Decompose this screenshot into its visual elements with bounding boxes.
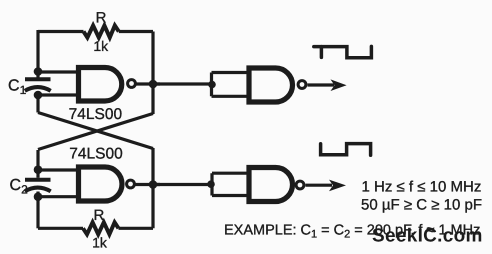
wire left vertical upper (top rail to C1) — [36, 30, 39, 78]
wire U1 output to node — [135, 82, 160, 85]
wire U4 output arrow shaft — [306, 184, 333, 187]
waveform symbol top (square wave) — [314, 46, 372, 57]
svg-text:1k: 1k — [92, 234, 108, 250]
wire U3 input bracket — [212, 73, 251, 97]
node dot below C1 — [34, 91, 43, 100]
svg-text:1k: 1k — [93, 38, 109, 54]
waveform top start tick — [320, 47, 324, 58]
wire cross coupling diagonal B (node A rail to C2 top) — [38, 114, 153, 150]
op-amp U4 NAND gate body — [249, 168, 293, 202]
node dot above C1 — [34, 67, 43, 76]
capacitor C1 curved plate — [25, 87, 51, 91]
wire top rail left segment — [38, 30, 84, 33]
U4 output inversion bubble — [296, 181, 304, 189]
wire bottom rail left segment — [38, 227, 83, 230]
wire left vertical (diagonal B to C2) — [36, 150, 39, 178]
svg-text:EXAMPLE: C1 = C2 = 200 pF, f ≈: EXAMPLE: C1 = C2 = 200 pF, f ≈ 1 MHz — [224, 223, 480, 241]
node dot below C2 — [34, 192, 43, 201]
capacitor C2 curved plate — [25, 188, 51, 192]
wire U2 output to node — [135, 183, 161, 186]
wire left vertical lower (C2 to bottom rail) — [36, 192, 39, 229]
svg-text:74LS00: 74LS00 — [69, 106, 123, 123]
wire U3 output arrow shaft — [308, 83, 335, 86]
U1 output inversion bubble — [128, 80, 136, 88]
svg-text:C1: C1 — [8, 78, 27, 98]
svg-text:R: R — [96, 10, 107, 27]
node dot U4 input junction — [207, 180, 215, 188]
svg-text:1 Hz ≤ f ≤ 10 MHz: 1 Hz ≤ f ≤ 10 MHz — [362, 179, 482, 196]
wire bottom rail right segment — [119, 227, 154, 230]
capacitor C2 top plate — [25, 178, 51, 182]
wire top rail right segment — [119, 30, 153, 33]
U4 output arrowhead — [329, 180, 346, 192]
node dot U3 input junction — [208, 81, 216, 89]
wire right vertical lower (diagonal A to bottom rail) — [151, 148, 154, 228]
wire cross coupling diagonal A (C1 bottom to U2 output rail) — [38, 113, 153, 149]
waveform symbol bottom (square wave inverted) — [321, 144, 371, 156]
resistor R1 zigzag — [84, 26, 119, 38]
svg-text:74LS00: 74LS00 — [69, 146, 123, 163]
node dot above C2 — [34, 165, 43, 174]
op-amp U2 NAND gate body — [79, 167, 123, 201]
U3 output arrowhead — [331, 79, 347, 91]
wire left vertical lower (C1 to cross wire) — [36, 91, 39, 113]
wire U4 input bracket — [212, 173, 250, 195]
node A junction dot (U1 output) — [149, 80, 158, 89]
capacitor C1 top plate — [25, 77, 51, 81]
resistor R2 zigzag — [83, 222, 119, 234]
svg-text:50 µF ≥ C ≥ 10 pF: 50 µF ≥ C ≥ 10 pF — [361, 197, 482, 214]
wire U1 input B — [38, 93, 79, 96]
U3 output inversion bubble — [298, 81, 306, 89]
U2 output inversion bubble — [127, 180, 135, 188]
wire right vertical upper (top rail to below node A) — [151, 32, 154, 115]
op-amp U3 NAND gate body — [249, 68, 293, 102]
wire node B to U4 input — [153, 183, 212, 186]
svg-text:R: R — [93, 207, 104, 224]
wire U2 input B — [38, 195, 79, 198]
wire U2 input A — [38, 168, 79, 171]
node B junction dot (U2 output) — [149, 180, 158, 189]
wire node A to U3 input — [153, 82, 213, 85]
op-amp U1 NAND gate body — [79, 68, 122, 102]
wire U1 input A — [38, 70, 79, 73]
